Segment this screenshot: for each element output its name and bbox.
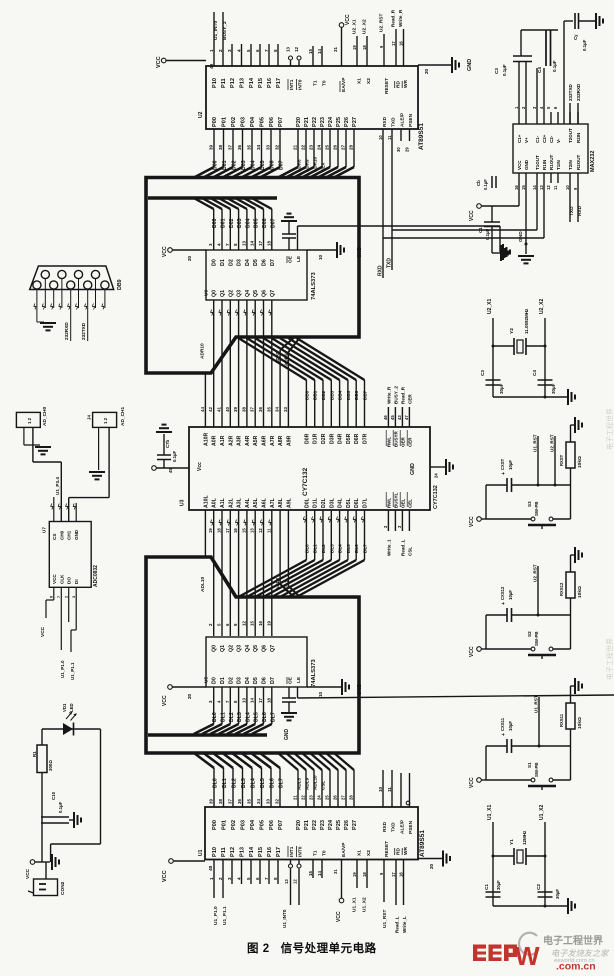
svg-text:18: 18: [362, 45, 367, 50]
svg-text:C4: C4: [537, 67, 542, 73]
svg-text:RXD: RXD: [382, 116, 388, 127]
svg-text:DB1: DB1: [313, 390, 318, 400]
svg-text:10: 10: [378, 786, 383, 792]
svg-text:CSL: CSL: [407, 547, 412, 556]
svg-text:CH1: CH1: [67, 530, 72, 540]
svg-text:12: 12: [294, 47, 299, 52]
svg-text:P03: P03: [241, 117, 247, 127]
svg-text:41: 41: [217, 407, 222, 412]
svg-text:14: 14: [532, 185, 537, 190]
svg-text:P06: P06: [269, 820, 275, 830]
svg-text:0.1µF: 0.1µF: [485, 229, 490, 240]
svg-text:P04: P04: [250, 116, 256, 127]
svg-text:8: 8: [273, 49, 278, 52]
svg-text:12MHz: 12MHz: [522, 830, 527, 845]
svg-text:11.0592MHz: 11.0592MHz: [524, 308, 529, 334]
svg-text:C2+: C2+: [542, 134, 547, 143]
svg-text:D7: D7: [270, 677, 276, 684]
svg-text:45: 45: [168, 468, 173, 473]
svg-text:S3: S3: [527, 501, 532, 507]
svg-text:P00: P00: [212, 820, 218, 830]
svg-text:.com.cn: .com.cn: [556, 961, 596, 972]
svg-text:Q4: Q4: [245, 290, 251, 297]
svg-text:A9L: A9L: [286, 497, 292, 508]
svg-text:30µF: 30µF: [499, 383, 504, 394]
svg-text:CY7C132: CY7C132: [302, 467, 309, 496]
svg-text:电子工程世界: 电子工程世界: [605, 408, 614, 450]
svg-text:1: 1: [209, 49, 214, 52]
svg-text:U1_RST: U1_RST: [382, 910, 388, 928]
svg-text:33: 33: [266, 799, 271, 804]
svg-text:37: 37: [250, 407, 255, 412]
svg-text:W: W: [515, 941, 540, 971]
svg-text:31: 31: [333, 869, 338, 874]
svg-text:30µF: 30µF: [551, 383, 556, 394]
svg-text:34: 34: [256, 144, 261, 150]
svg-text:13: 13: [241, 698, 246, 703]
svg-text:P02: P02: [231, 820, 237, 830]
svg-text:14: 14: [317, 871, 322, 876]
svg-text:19: 19: [352, 872, 357, 877]
svg-text:27: 27: [341, 144, 346, 150]
svg-text:U1_RST: U1_RST: [533, 434, 538, 452]
svg-text:P11: P11: [221, 847, 227, 857]
svg-text:CXS12: CXS12: [500, 586, 505, 600]
svg-text:7: 7: [57, 596, 61, 598]
svg-text:U2_X1: U2_X1: [352, 19, 358, 34]
svg-text:U1_X1: U1_X1: [487, 804, 493, 820]
svg-text:DL4: DL4: [251, 778, 257, 788]
svg-text:D7L: D7L: [363, 497, 369, 508]
svg-text:RXD: RXD: [382, 821, 388, 832]
svg-text:40: 40: [225, 407, 230, 412]
svg-text:DL3: DL3: [237, 712, 243, 722]
svg-text:A8R: A8R: [278, 435, 284, 446]
svg-text:DL4: DL4: [245, 712, 251, 722]
svg-text:24: 24: [317, 795, 322, 800]
svg-text:Read_R: Read_R: [391, 9, 396, 27]
svg-text:AT89S51: AT89S51: [419, 830, 426, 857]
svg-text:4: 4: [237, 877, 242, 880]
svg-text:17: 17: [391, 872, 396, 877]
svg-text:37: 37: [228, 144, 233, 150]
svg-text:Read_R: Read_R: [400, 386, 405, 404]
svg-text:17: 17: [258, 240, 263, 246]
svg-text:P22: P22: [312, 117, 318, 127]
svg-text:P16: P16: [267, 78, 273, 88]
svg-text:Write_R: Write_R: [386, 386, 391, 404]
svg-text:232TXD: 232TXD: [81, 322, 86, 340]
svg-text:SW-PB: SW-PB: [534, 762, 539, 777]
svg-text:11: 11: [553, 185, 558, 190]
svg-text:DL6: DL6: [270, 778, 276, 788]
svg-text:38: 38: [218, 799, 223, 804]
svg-text:0.1µF: 0.1µF: [582, 39, 587, 51]
svg-text:P14: P14: [249, 846, 255, 857]
svg-text:232RXD: 232RXD: [576, 83, 581, 101]
svg-text:D03: D03: [237, 218, 243, 228]
svg-text:U1_X2: U1_X2: [539, 804, 545, 820]
svg-text:P12: P12: [230, 78, 236, 88]
svg-text:T0: T0: [322, 80, 328, 86]
svg-text:D6: D6: [262, 259, 268, 266]
svg-text:Q2: Q2: [228, 645, 234, 652]
svg-text:74ALS373: 74ALS373: [311, 659, 317, 687]
svg-text:A6L: A6L: [262, 497, 268, 508]
svg-text:DL4: DL4: [338, 544, 343, 553]
svg-text:15: 15: [241, 528, 246, 533]
svg-text:P01: P01: [222, 820, 228, 830]
svg-text:Q7: Q7: [270, 645, 276, 652]
svg-text:ADL8: ADL8: [297, 778, 302, 790]
svg-text:26: 26: [333, 795, 338, 800]
svg-text:10: 10: [318, 691, 323, 697]
svg-text:U1_X1: U1_X1: [352, 897, 358, 912]
svg-text:TXD: TXD: [569, 206, 575, 216]
svg-text:2: 2: [64, 596, 68, 598]
svg-text:S2: S2: [527, 631, 532, 637]
svg-text:P25: P25: [336, 117, 342, 127]
svg-text:Write_R: Write_R: [398, 9, 403, 27]
svg-text:D2: D2: [228, 677, 234, 684]
svg-text:VCC: VCC: [25, 868, 31, 879]
svg-text:Read_L: Read_L: [400, 539, 405, 556]
svg-text:A0L: A0L: [212, 497, 218, 508]
svg-text:D4: D4: [245, 677, 251, 684]
svg-text:U1_RST: U1_RST: [534, 695, 539, 713]
svg-text:U7: U7: [42, 527, 47, 533]
svg-text:13: 13: [241, 240, 246, 246]
svg-text:U1: U1: [198, 849, 204, 856]
svg-text:DB0: DB0: [304, 390, 309, 400]
svg-text:Q3: Q3: [237, 645, 243, 652]
svg-text:电子发烧友之家: 电子发烧友之家: [551, 949, 610, 958]
svg-text:A7R: A7R: [270, 435, 276, 446]
svg-text:T2OUT: T2OUT: [568, 128, 573, 143]
svg-text:16: 16: [233, 528, 238, 533]
svg-text:U1_X2: U1_X2: [362, 897, 368, 912]
svg-text:DL1: DL1: [221, 712, 227, 722]
svg-text:D7R: D7R: [363, 433, 369, 444]
svg-text:ADL10: ADL10: [200, 576, 206, 592]
svg-text:C7b: C7b: [165, 440, 170, 448]
svg-text:GND: GND: [410, 463, 416, 475]
svg-text:PSEN: PSEN: [408, 820, 414, 834]
svg-text:D5: D5: [253, 259, 259, 266]
svg-text:GND: GND: [357, 247, 363, 259]
svg-text:24: 24: [317, 144, 322, 150]
svg-text:GND: GND: [467, 59, 473, 71]
svg-text:38: 38: [241, 407, 246, 412]
svg-text:D5R: D5R: [346, 433, 352, 444]
svg-text:Cy: Cy: [573, 34, 578, 40]
svg-text:P16: P16: [267, 847, 273, 857]
svg-text:EA/VP: EA/VP: [341, 77, 347, 92]
svg-text:0.1µF: 0.1µF: [552, 60, 557, 72]
svg-text:U1_P1.1: U1_P1.1: [70, 662, 75, 680]
svg-text:38: 38: [218, 144, 223, 150]
svg-text:CH0: CH0: [59, 530, 64, 540]
svg-text:D06: D06: [262, 218, 268, 228]
svg-text:35: 35: [247, 799, 252, 804]
svg-text:X2: X2: [366, 850, 372, 856]
svg-text:32: 32: [275, 799, 280, 804]
svg-text:4: 4: [237, 49, 242, 52]
svg-text:10µF: 10µF: [508, 590, 513, 600]
svg-text:CER: CER: [407, 394, 412, 404]
svg-text:VCC: VCC: [469, 210, 475, 221]
svg-text:45: 45: [390, 415, 395, 420]
svg-text:PSEN: PSEN: [408, 113, 414, 127]
svg-text:P00: P00: [212, 117, 218, 127]
svg-text:INT0: INT0: [298, 846, 304, 857]
svg-text:13: 13: [284, 879, 289, 884]
svg-text:36: 36: [237, 799, 242, 804]
svg-text:A3R: A3R: [237, 435, 243, 446]
svg-text:A4L: A4L: [245, 497, 251, 508]
svg-text:P13: P13: [240, 78, 246, 88]
svg-text:13: 13: [250, 528, 255, 533]
svg-text:CSL: CSL: [321, 781, 326, 790]
svg-text:C1-: C1-: [535, 135, 540, 143]
svg-text:RESET: RESET: [384, 841, 390, 857]
svg-text:P15: P15: [258, 78, 264, 88]
svg-text:D3L: D3L: [329, 497, 335, 508]
svg-text:DL6: DL6: [262, 712, 268, 722]
svg-text:D2: D2: [228, 259, 234, 266]
svg-text:DL2: DL2: [321, 544, 326, 553]
svg-text:+: +: [501, 602, 507, 605]
svg-text:1 2: 1 2: [103, 417, 108, 424]
svg-text:U1_INT0: U1_INT0: [282, 909, 287, 928]
svg-text:GND: GND: [524, 159, 529, 170]
svg-text:AD_CH1: AD_CH1: [120, 406, 126, 426]
svg-text:34: 34: [275, 407, 280, 412]
svg-text:P17: P17: [276, 78, 282, 88]
svg-text:3: 3: [227, 49, 232, 52]
svg-text:30: 30: [396, 147, 401, 152]
svg-text:7: 7: [264, 49, 269, 52]
svg-text:0.1µF: 0.1µF: [172, 451, 177, 462]
svg-text:D2L: D2L: [321, 497, 327, 508]
svg-text:SW-PB: SW-PB: [534, 631, 539, 646]
svg-text:C4: C4: [532, 370, 537, 376]
svg-text:Q6: Q6: [262, 290, 268, 297]
svg-text:D07: D07: [270, 218, 276, 228]
svg-text:DL3: DL3: [241, 778, 247, 788]
svg-text:CY7C132: CY7C132: [433, 485, 439, 509]
svg-text:300Ω: 300Ω: [48, 760, 53, 771]
svg-text:DL2: DL2: [232, 778, 238, 788]
svg-text:P24: P24: [328, 819, 334, 830]
svg-text:P25: P25: [336, 820, 342, 830]
svg-text:12: 12: [241, 621, 246, 626]
svg-text:VCC: VCC: [162, 246, 168, 257]
svg-text:25: 25: [325, 144, 330, 150]
svg-text:10: 10: [565, 185, 570, 190]
svg-text:39: 39: [209, 799, 214, 804]
svg-text:24: 24: [434, 473, 439, 478]
svg-text:A2R: A2R: [228, 435, 234, 446]
svg-text:Vcc: Vcc: [197, 462, 203, 471]
svg-text:Cb: Cb: [476, 180, 481, 186]
svg-text:43: 43: [397, 415, 402, 420]
svg-text:电子工程世界: 电子工程世界: [605, 638, 614, 680]
svg-text:DB4: DB4: [338, 390, 343, 400]
svg-text:OE: OE: [288, 676, 294, 684]
svg-text:D3R: D3R: [329, 433, 335, 444]
svg-text:P21: P21: [304, 820, 310, 830]
svg-text:30µF: 30µF: [555, 889, 560, 899]
svg-text:INT1: INT1: [289, 846, 295, 857]
svg-text:INT0: INT0: [298, 79, 304, 90]
svg-text:R2OUT: R2OUT: [576, 154, 581, 170]
svg-text:U2_RST: U2_RST: [533, 564, 538, 582]
svg-text:CS: CS: [52, 534, 57, 540]
svg-text:D2R: D2R: [321, 433, 327, 444]
svg-text:CEL: CEL: [407, 499, 412, 508]
svg-text:16: 16: [258, 621, 263, 626]
svg-text:RXS12: RXS12: [559, 582, 564, 596]
svg-text:Read_L: Read_L: [395, 916, 400, 933]
svg-text:+: +: [501, 733, 507, 736]
svg-text:D1L: D1L: [313, 497, 319, 508]
svg-text:10µF: 10µF: [508, 721, 513, 731]
svg-text:32: 32: [275, 144, 280, 150]
svg-text:GND: GND: [74, 529, 79, 540]
svg-text:U2_X1: U2_X1: [487, 298, 493, 314]
svg-text:36: 36: [258, 407, 263, 412]
svg-text:33: 33: [266, 144, 271, 150]
svg-text:DL5: DL5: [254, 712, 260, 722]
svg-text:25: 25: [325, 795, 330, 800]
svg-text:DL5: DL5: [346, 544, 351, 553]
svg-text:Q0: Q0: [212, 645, 218, 652]
svg-text:19: 19: [352, 45, 357, 50]
svg-text:3: 3: [72, 596, 76, 598]
svg-text:16: 16: [399, 41, 404, 46]
svg-text:D4L: D4L: [338, 497, 344, 508]
svg-text:7: 7: [225, 243, 230, 246]
svg-text:BUSYR: BUSYR: [393, 430, 398, 447]
svg-text:17: 17: [225, 528, 230, 533]
svg-text:RXD: RXD: [577, 205, 583, 216]
svg-text:R1OUT: R1OUT: [549, 154, 554, 170]
svg-text:DL1: DL1: [313, 544, 318, 553]
svg-text:+: +: [501, 472, 507, 475]
svg-text:VCC: VCC: [336, 911, 342, 922]
svg-text:GND: GND: [284, 729, 290, 741]
svg-text:S1: S1: [527, 762, 532, 768]
svg-text:3: 3: [227, 877, 232, 880]
svg-text:U1_P3.4: U1_P3.4: [55, 477, 60, 495]
svg-text:ADC0832: ADC0832: [93, 565, 99, 587]
svg-text:A1L: A1L: [220, 497, 226, 508]
svg-text:LED: LED: [69, 703, 74, 712]
svg-text:16: 16: [514, 185, 519, 190]
svg-text:DB2: DB2: [321, 390, 326, 400]
svg-text:P10: P10: [212, 847, 218, 857]
svg-text:RWL: RWL: [386, 437, 391, 447]
svg-text:RESET: RESET: [384, 78, 390, 94]
svg-text:R1: R1: [32, 751, 37, 757]
svg-text:D01: D01: [221, 218, 227, 228]
svg-text:VCC: VCC: [517, 160, 522, 170]
svg-text:0.1µF: 0.1µF: [58, 801, 63, 813]
svg-text:A3L: A3L: [237, 497, 243, 508]
svg-text:EA/VP: EA/VP: [341, 842, 347, 857]
svg-text:C3: C3: [480, 370, 485, 376]
svg-text:18: 18: [266, 698, 271, 703]
svg-text:P20: P20: [296, 117, 302, 127]
svg-text:18: 18: [266, 240, 271, 246]
svg-text:GND: GND: [357, 684, 363, 696]
svg-text:DL0: DL0: [212, 712, 218, 722]
svg-text:DL7: DL7: [270, 712, 276, 722]
svg-text:15: 15: [308, 49, 313, 54]
svg-text:8: 8: [233, 243, 238, 246]
svg-text:DO: DO: [67, 577, 72, 584]
svg-text:40: 40: [208, 865, 214, 871]
svg-text:VCC: VCC: [469, 646, 475, 657]
svg-text:D6L: D6L: [354, 497, 360, 508]
svg-text:232TXD: 232TXD: [568, 83, 573, 101]
svg-text:10µF: 10µF: [508, 460, 513, 470]
svg-text:D0R: D0R: [304, 433, 310, 444]
svg-text:D4R: D4R: [338, 433, 344, 444]
svg-text:D3: D3: [237, 259, 243, 266]
svg-text:LE: LE: [296, 255, 302, 262]
svg-text:10kΩ: 10kΩ: [577, 456, 583, 468]
svg-text:12: 12: [546, 185, 551, 190]
svg-text:RD: RD: [396, 848, 402, 855]
svg-text:DB3: DB3: [329, 390, 334, 400]
svg-text:7: 7: [264, 877, 269, 880]
svg-text:U1_P1.0: U1_P1.0: [213, 906, 219, 925]
svg-text:D5: D5: [253, 677, 259, 684]
svg-text:19: 19: [208, 528, 213, 533]
svg-text:DB6: DB6: [354, 390, 359, 400]
svg-text:Q7: Q7: [270, 290, 276, 297]
svg-text:OEL: OEL: [400, 498, 405, 508]
svg-text:232RXD: 232RXD: [64, 322, 69, 340]
svg-text:A0R: A0R: [212, 435, 218, 446]
svg-text:OER: OER: [400, 436, 405, 447]
svg-text:ADL10: ADL10: [313, 775, 318, 790]
svg-text:ADL9: ADL9: [305, 778, 310, 790]
svg-text:C3: C3: [494, 68, 499, 74]
svg-text:P03: P03: [241, 820, 247, 830]
svg-text:14: 14: [317, 49, 322, 54]
svg-text:11: 11: [387, 135, 392, 140]
svg-text:16: 16: [399, 872, 404, 877]
svg-text:U1_P1.0: U1_P1.0: [60, 660, 65, 678]
svg-text:D3: D3: [237, 677, 243, 684]
svg-text:ADR10: ADR10: [200, 343, 206, 359]
svg-text:BUSYL: BUSYL: [393, 492, 398, 508]
svg-text:BUSY_2: BUSY_2: [222, 21, 228, 40]
svg-text:A8L: A8L: [278, 497, 284, 508]
svg-text:4: 4: [217, 243, 222, 246]
svg-text:DL3: DL3: [329, 544, 334, 553]
svg-text:10: 10: [378, 135, 383, 140]
svg-text:TXD: TXD: [387, 258, 393, 268]
svg-text:Q6: Q6: [262, 645, 268, 652]
svg-text:X2: X2: [366, 78, 372, 84]
svg-text:10kΩ: 10kΩ: [577, 717, 583, 729]
svg-text:13: 13: [539, 185, 544, 190]
svg-text:P05: P05: [260, 117, 266, 127]
